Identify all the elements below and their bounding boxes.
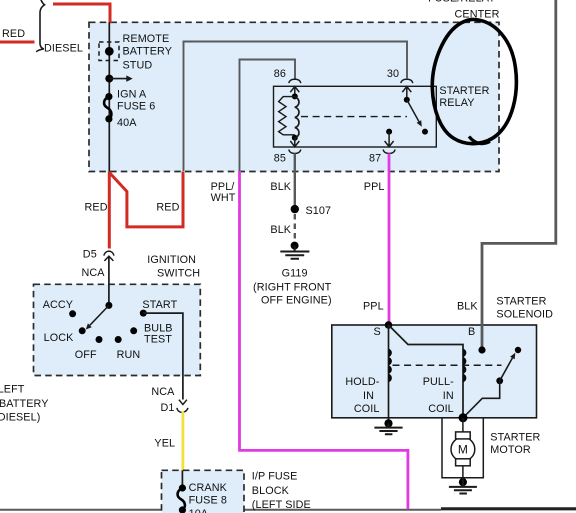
annotation ellipse (hand-drawn circle): [432, 19, 516, 143]
starter solenoid box: [332, 325, 537, 418]
pull-in coil wire from S: [389, 325, 464, 418]
ignition switch box: [34, 284, 201, 375]
svg-text:BLK: BLK: [270, 224, 291, 236]
svg-text:OFF ENGINE): OFF ENGINE): [261, 294, 332, 306]
svg-text:(DIESEL): (DIESEL): [0, 411, 40, 423]
svg-text:COIL: COIL: [354, 403, 380, 415]
svg-text:86: 86: [274, 68, 286, 80]
svg-text:M: M: [458, 443, 468, 457]
svg-text:(RIGHT FRONT: (RIGHT FRONT: [253, 281, 332, 293]
svg-text:PPL: PPL: [363, 300, 384, 312]
wire RED to ignition switch: [108, 172, 111, 249]
svg-text:RELAY: RELAY: [439, 97, 474, 109]
relay coil with resistor: [292, 93, 298, 99]
svg-text:D5: D5: [83, 249, 97, 261]
svg-text:S107: S107: [306, 205, 332, 217]
svg-text:SOLENOID: SOLENOID: [496, 308, 553, 320]
svg-text:(LEFT: (LEFT: [0, 383, 25, 395]
svg-text:FUSE 8: FUSE 8: [189, 495, 227, 507]
ground G119: [291, 242, 299, 250]
wire BLK battery to solenoid B: [482, 0, 556, 347]
svg-text:10A: 10A: [189, 508, 209, 513]
svg-text:(LEFT SIDE: (LEFT SIDE: [252, 499, 311, 511]
bottom border line left: [0, 509, 441, 511]
relay box: [274, 86, 437, 147]
svg-text:RED: RED: [85, 201, 108, 213]
svg-text:85: 85: [274, 153, 286, 165]
svg-text:START: START: [142, 299, 177, 311]
wire PPL pin 87 to solenoid: [388, 153, 391, 325]
svg-text:BLOCK: BLOCK: [252, 485, 290, 497]
relay contact node: [422, 129, 428, 135]
node pull-in / motor junction: [459, 413, 468, 422]
svg-text:I/P FUSE: I/P FUSE: [252, 470, 298, 482]
arrow branch to relay wires: [109, 78, 127, 80]
ground hold-in coil: [384, 419, 392, 427]
svg-text:STARTER: STARTER: [496, 295, 546, 307]
wire START to D1: [143, 313, 183, 399]
node RUN: [115, 336, 122, 343]
svg-text:RED: RED: [156, 201, 179, 213]
pull-in coil loops: [463, 349, 466, 383]
relay dashed link: [301, 116, 407, 118]
svg-text:IGNITION: IGNITION: [147, 254, 196, 266]
wire RED battery feed (left): [0, 41, 35, 44]
svg-text:NCA: NCA: [151, 386, 175, 398]
svg-text:NCA: NCA: [82, 267, 106, 279]
svg-text:D1: D1: [161, 402, 175, 414]
svg-text:DIESEL: DIESEL: [44, 42, 83, 54]
wire battery stud vertical: [108, 22, 110, 171]
junction node battery stud: [105, 75, 113, 83]
relay pin 85 connector: [290, 138, 299, 147]
svg-text:G119: G119: [282, 268, 308, 280]
ground starter motor: [459, 478, 467, 486]
remote battery stud: [99, 42, 119, 61]
node S terminal: [385, 321, 393, 329]
svg-text:REMOTE: REMOTE: [123, 33, 170, 45]
wire BLK dashed to ground: [294, 214, 296, 242]
svg-text:MOTOR: MOTOR: [490, 444, 531, 456]
svg-text:IN: IN: [363, 390, 374, 402]
svg-text:YEL: YEL: [154, 437, 175, 449]
connector D1: [179, 400, 187, 405]
node B terminal: [478, 346, 485, 353]
svg-text:B: B: [468, 326, 475, 338]
svg-text:STARTER: STARTER: [490, 432, 540, 444]
wire BLK from pin 85: [294, 153, 296, 205]
svg-text:RED: RED: [2, 28, 25, 40]
wire PPL/WHT: [240, 171, 408, 509]
svg-text:PPL: PPL: [364, 181, 385, 193]
ignition switch arm: [90, 305, 109, 325]
svg-text:RUN: RUN: [117, 349, 141, 361]
relay pin 30 connector: [401, 79, 413, 83]
svg-text:HOLD-: HOLD-: [345, 376, 379, 388]
relay switch arm: [404, 97, 410, 103]
fuse/relay center box: [89, 22, 499, 171]
svg-text:STUD: STUD: [123, 60, 153, 72]
wire YEL: [181, 412, 184, 471]
splice S107: [291, 205, 299, 213]
wire to relay pin 30 (grey feed): [184, 42, 408, 172]
ignition switch pivot: [105, 302, 112, 309]
svg-text:FUSE/RELAY: FUSE/RELAY: [428, 0, 495, 5]
solenoid dashed link: [393, 364, 502, 366]
solenoid switch linkage: [463, 381, 500, 418]
svg-text:87: 87: [369, 153, 381, 165]
solenoid switch contact: [515, 347, 521, 353]
connector D5: [104, 251, 114, 256]
svg-text:BATTERY: BATTERY: [0, 398, 49, 410]
wire to relay pin 86 (grey feed): [240, 60, 296, 172]
node OFF: [96, 336, 103, 343]
starter motor frame: [442, 418, 483, 478]
svg-text:40A: 40A: [117, 117, 137, 129]
svg-text:FUSE 6: FUSE 6: [117, 101, 155, 113]
solenoid switch arm: [496, 377, 503, 384]
node BULB TEST: [130, 327, 137, 334]
svg-text:PULL-: PULL-: [423, 376, 454, 388]
svg-text:STARTER: STARTER: [439, 85, 489, 97]
svg-text:WHT: WHT: [211, 192, 236, 204]
I/P fuse block box: [162, 470, 245, 513]
svg-text:IN: IN: [443, 390, 454, 402]
svg-text:SWITCH: SWITCH: [157, 268, 200, 280]
fuse CRANK FUSE 8: [181, 470, 183, 488]
svg-text:S: S: [374, 326, 381, 338]
brace DIESEL option: [36, 0, 44, 52]
svg-text:LOCK: LOCK: [44, 332, 75, 344]
wire RED battery feed (top): [53, 4, 110, 23]
svg-text:OFF: OFF: [75, 349, 97, 361]
svg-text:BATTERY: BATTERY: [123, 45, 173, 57]
svg-text:BLK: BLK: [270, 181, 291, 193]
node LOCK: [79, 327, 86, 334]
svg-text:CRANK: CRANK: [189, 482, 228, 494]
svg-text:30: 30: [387, 68, 399, 80]
hold-in coil wire: [388, 325, 390, 421]
hold-in coil loops: [389, 349, 392, 383]
ignition switch feed wire: [108, 256, 110, 305]
relay pin 86 connector: [289, 79, 301, 83]
fuse IGN A FUSE 6 40A: [105, 93, 112, 100]
bottom border line right: [441, 507, 576, 510]
relay pin 87: [386, 129, 392, 135]
node START: [140, 310, 147, 317]
svg-text:TEST: TEST: [144, 333, 172, 345]
svg-text:COIL: COIL: [428, 403, 454, 415]
svg-text:ACCY: ACCY: [43, 299, 73, 311]
wire RED loop to pin 30 feed: [109, 172, 183, 227]
node ACCY: [69, 310, 76, 317]
svg-text:BLK: BLK: [457, 300, 478, 312]
svg-text:IGN A: IGN A: [117, 89, 147, 101]
starter motor: [462, 418, 464, 433]
